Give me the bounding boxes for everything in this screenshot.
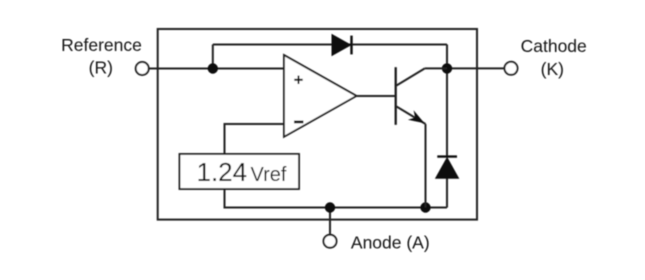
svg-text:(R): (R) xyxy=(89,58,113,78)
wire cathode rail down xyxy=(446,45,448,158)
terminal Anode (A) xyxy=(324,233,430,253)
diode D2 bottom xyxy=(436,157,459,179)
terminal Reference (R) xyxy=(61,35,149,78)
wire op-amp output to base xyxy=(357,95,396,97)
diode D1 top xyxy=(332,35,352,56)
svg-text:1.24: 1.24 xyxy=(197,157,248,187)
wire reference input to op-amp + xyxy=(149,68,284,70)
transistor Q1 NPN xyxy=(396,67,447,207)
wire diode D2 anode to bottom rail xyxy=(446,177,448,208)
junction dot node A right xyxy=(420,202,430,212)
voltage reference block 1.24 Vref xyxy=(180,154,300,189)
wire cathode output xyxy=(447,67,505,69)
wire anode stub xyxy=(329,208,331,236)
wire Vref to bottom rail xyxy=(225,189,448,208)
svg-text:(K): (K) xyxy=(541,59,564,79)
wire op-amp minus input xyxy=(225,124,285,154)
op-amp error amplifier xyxy=(284,55,357,137)
junction dot node K xyxy=(442,63,452,73)
svg-text:Cathode: Cathode xyxy=(521,36,587,56)
device outline box xyxy=(158,29,477,220)
svg-text:Vref: Vref xyxy=(251,164,287,186)
svg-text:Anode (A): Anode (A) xyxy=(351,233,430,253)
junction dot node A left xyxy=(325,202,335,212)
wire node R up branch xyxy=(212,45,214,69)
wire top rail through diode D1 xyxy=(213,44,447,46)
svg-text:Reference: Reference xyxy=(61,35,142,55)
junction dot node R xyxy=(208,63,218,73)
terminal Cathode (K) xyxy=(505,36,587,79)
